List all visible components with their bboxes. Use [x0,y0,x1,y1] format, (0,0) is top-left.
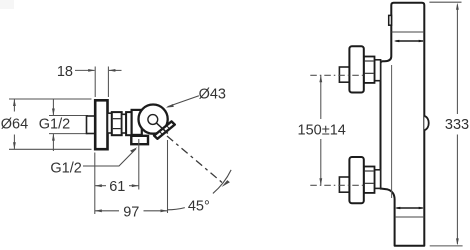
hex nut [364,167,375,193]
dim 61 arrows [95,184,139,187]
dim G1/2 top arrows [52,109,55,141]
svg-text:G1/2: G1/2 [39,117,70,133]
label G1/2 bottom arrowhead [130,147,137,153]
dim Ø64 arrows [13,99,16,149]
bottom block arrowheads [395,207,424,210]
svg-text:333: 333 [445,117,469,133]
svg-text:Ø64: Ø64 [1,117,28,133]
bottom handle group [339,157,380,203]
top handle centerline [310,74,364,76]
hex nut flats [113,119,121,129]
angle arc 45 [167,170,231,210]
cylinder [126,112,132,135]
spacer [375,170,381,189]
dim 61 extension line [138,139,140,190]
wall flange [95,100,107,149]
dim 150±14 [320,75,322,185]
inlet pipe stub [87,116,96,134]
outlet cup [131,136,148,144]
dim 18 arrows [88,69,115,72]
ring A [108,113,112,133]
adapter [122,114,126,133]
knob circle [139,105,168,134]
label G1/2 bottom leader [83,149,136,166]
svg-text:97: 97 [123,204,139,220]
knob [349,46,363,92]
grip pad [154,121,175,138]
dim G1/2 top extension lines [49,99,88,152]
top block arrowheads [394,40,424,43]
side bump [424,116,428,130]
angle arc arrowhead [222,180,230,187]
dim 333 arrows [456,3,459,246]
svg-text:45°: 45° [188,198,210,214]
dim 97 [95,140,168,214]
svg-text:150±14: 150±14 [298,123,346,139]
label Ø43 arrowhead [166,104,174,108]
stem [339,67,349,82]
grip hatch [159,125,170,135]
spacer [375,60,381,81]
tab on left edge [389,15,392,25]
inner face line [391,65,393,198]
top handle group [339,46,380,92]
bottom block arrow line [397,207,423,209]
top block inner line [391,31,424,33]
svg-text:Ø43: Ø43 [199,86,226,102]
dim 61 [95,185,139,187]
hex nut [364,57,375,83]
valve body [132,110,142,135]
stem [339,177,349,192]
bottom block inner line [395,216,425,218]
knob [349,157,363,203]
svg-text:G1/2: G1/2 [50,160,81,176]
dim 97 arrows [95,209,168,212]
dim 333 extension lines [429,2,462,246]
svg-text:18: 18 [57,64,73,80]
label Ø43 leader [168,96,199,107]
hex flats [365,171,374,183]
top block arrow line [396,40,424,42]
dim Ø64 extension lines [9,99,92,149]
hex nut [112,112,122,135]
hex flats [365,61,374,73]
dashed 45 line [167,136,224,184]
bottom handle centerline [310,184,364,186]
main column contour [381,3,425,246]
dim 18 extension lines [75,67,122,98]
lever line [156,123,168,134]
dim 150±14 arrows [319,75,322,185]
inner circle [148,115,158,125]
svg-text:61: 61 [109,179,125,195]
